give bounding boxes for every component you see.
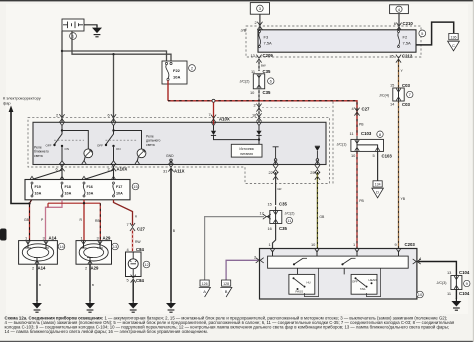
label 15 bbox=[36, 125, 43, 132]
label 7 bbox=[407, 91, 413, 97]
svg-text:1: 1 bbox=[353, 242, 355, 247]
svg-text:13: 13 bbox=[113, 244, 118, 249]
label 15 fuse box bbox=[132, 183, 139, 190]
svg-text:HEAD: HEAD bbox=[369, 278, 377, 282]
wire F19 to left headlight (red-black) bbox=[30, 200, 32, 241]
label 10 bbox=[417, 291, 424, 298]
svg-text:2: 2 bbox=[32, 265, 34, 270]
low-beam relay coil bbox=[54, 131, 93, 165]
svg-text:F2: F2 bbox=[403, 35, 408, 40]
wire branch to right headlight pin3 (red-black) bbox=[48, 203, 100, 240]
wire box3 down bbox=[259, 14, 261, 30]
pin 13 connector C209 bbox=[256, 55, 261, 63]
svg-text:11: 11 bbox=[350, 131, 354, 136]
caption text bbox=[5, 316, 455, 335]
svg-text:D: D bbox=[376, 190, 379, 195]
pin 9 bbox=[396, 249, 400, 252]
svg-text:YB: YB bbox=[401, 197, 406, 201]
wire bus tap to control unit A10X bbox=[213, 102, 215, 124]
low-beam relay bbox=[46, 122, 70, 164]
wire J/C(1) pin5 to off-page D bbox=[377, 151, 379, 180]
svg-text:134: 134 bbox=[375, 183, 381, 187]
wire headlight14 ground bbox=[36, 264, 38, 301]
fuse F18 bbox=[60, 176, 72, 197]
wire relay1 to fuses F19 F18 bbox=[32, 166, 62, 180]
strip contact arm left bbox=[294, 258, 303, 264]
svg-text:7,5A: 7,5A bbox=[264, 41, 273, 46]
ground (battery) bbox=[92, 25, 102, 37]
control unit output terminal 22 bbox=[273, 147, 279, 165]
node connector on bus bbox=[212, 99, 215, 102]
svg-text:6: 6 bbox=[394, 21, 396, 26]
wire indicator ground bbox=[132, 281, 134, 302]
svg-text:RW: RW bbox=[135, 240, 141, 244]
pin 2 left side bbox=[256, 258, 264, 263]
wire C209 down (black-white) bbox=[258, 60, 260, 71]
svg-text:A14: A14 bbox=[49, 236, 57, 241]
svg-text:16: 16 bbox=[268, 226, 272, 231]
ignition switch box 4 bbox=[390, 5, 409, 14]
off-page arrow A bbox=[199, 280, 211, 297]
svg-text:GB: GB bbox=[24, 218, 30, 222]
svg-text:ON: ON bbox=[65, 147, 70, 151]
svg-text:3: 3 bbox=[97, 235, 99, 240]
pin 25 connector C212 bbox=[396, 55, 401, 63]
svg-text:OFF: OFF bbox=[352, 280, 358, 284]
svg-text:A14: A14 bbox=[38, 266, 46, 271]
wire F22 output red bbox=[167, 81, 169, 101]
svg-text:C35: C35 bbox=[263, 90, 271, 95]
svg-text:126: 126 bbox=[202, 282, 208, 286]
svg-text:1: 1 bbox=[25, 235, 27, 240]
svg-text:6: 6 bbox=[56, 167, 58, 172]
off-page arrow D bbox=[372, 181, 384, 198]
svg-text:Источник: Источник bbox=[239, 147, 254, 151]
svg-text:5: 5 bbox=[373, 153, 375, 158]
svg-text:F18: F18 bbox=[65, 185, 71, 189]
pin 2 C209 top bbox=[257, 22, 262, 30]
svg-text:F17: F17 bbox=[116, 185, 122, 189]
label 13 bbox=[112, 243, 119, 250]
svg-text:PB: PB bbox=[359, 123, 364, 127]
svg-text:C103: C103 bbox=[361, 131, 372, 136]
svg-text:1: 1 bbox=[81, 235, 83, 240]
svg-text:J/C(2): J/C(2) bbox=[285, 212, 295, 216]
svg-text:10A: 10A bbox=[87, 192, 94, 196]
fuse F3 bbox=[259, 31, 273, 48]
svg-text:C104: C104 bbox=[459, 270, 470, 275]
power source box bbox=[231, 144, 262, 157]
junction block J/B dashed bbox=[246, 26, 421, 57]
svg-text:14: 14 bbox=[59, 244, 64, 249]
svg-text:B: B bbox=[225, 289, 228, 294]
wire branch to high-beam relay bbox=[113, 54, 115, 124]
pin 2 (relay block entry) bbox=[59, 114, 64, 122]
pin 31 A11X bbox=[168, 164, 173, 172]
wire J/C(1) to light switch (red-black) bbox=[356, 151, 358, 248]
svg-text:10A: 10A bbox=[35, 192, 42, 196]
svg-text:22: 22 bbox=[269, 170, 273, 175]
wire control unit 22 to C35 bbox=[275, 172, 277, 205]
svg-text:10A: 10A bbox=[173, 75, 180, 80]
wire switch pin4 to C104 (black) bbox=[418, 262, 456, 276]
svg-text:10A: 10A bbox=[116, 192, 123, 196]
ignition switch box 3 bbox=[250, 3, 269, 15]
svg-text:A: A bbox=[203, 289, 206, 294]
wire battery left terminal down to relay feed bbox=[61, 31, 63, 124]
svg-text:C03: C03 bbox=[402, 102, 410, 107]
svg-text:B: B bbox=[39, 283, 41, 287]
label 2 (fuse box) bbox=[189, 65, 196, 72]
left headlight 14 bbox=[19, 241, 58, 265]
svg-text:OFF: OFF bbox=[97, 144, 103, 148]
svg-text:B: B bbox=[92, 283, 94, 287]
pin 25 bbox=[315, 165, 320, 173]
svg-text:16: 16 bbox=[252, 112, 256, 117]
svg-text:TAIL: TAIL bbox=[360, 287, 366, 291]
wire C27 to indicator (red-white) bbox=[132, 229, 134, 252]
battery 1 bbox=[62, 19, 84, 31]
svg-text:14 — лампа ближнего/дальнего с: 14 — лампа ближнего/дальнего света левой… bbox=[5, 329, 208, 334]
wire F17 to C27 (dark red) bbox=[114, 200, 133, 225]
svg-text:11: 11 bbox=[251, 69, 255, 74]
pin 1b bbox=[355, 249, 359, 252]
svg-text:RB: RB bbox=[95, 219, 100, 223]
ground wire A11X bbox=[170, 169, 172, 301]
pin 6 connector C210 bbox=[396, 23, 401, 31]
svg-text:J/C(4): J/C(4) bbox=[379, 93, 389, 97]
wire F18 to left headlight pin3 (pink) bbox=[46, 200, 63, 241]
svg-text:13: 13 bbox=[447, 270, 451, 275]
joint connector J/C(2) 11 bbox=[263, 207, 282, 226]
label 12 bbox=[143, 261, 150, 268]
fuse panel 5 bbox=[258, 30, 416, 52]
svg-text:J/C(3): J/C(3) bbox=[437, 281, 447, 285]
pin 6 (relay block entry) bbox=[111, 114, 116, 122]
high-beam relay bbox=[97, 122, 121, 164]
svg-text:7: 7 bbox=[209, 112, 211, 117]
scan blob artifact left edge bbox=[0, 229, 7, 241]
svg-text:A10X: A10X bbox=[219, 117, 230, 122]
svg-text:2: 2 bbox=[85, 265, 87, 270]
label 6 bbox=[268, 78, 274, 84]
svg-text:25: 25 bbox=[310, 170, 314, 175]
svg-text:7,5A: 7,5A bbox=[403, 41, 412, 46]
svg-text:10A: 10A bbox=[65, 192, 72, 196]
svg-text:C27: C27 bbox=[137, 227, 145, 232]
right headlight 13 bbox=[76, 241, 112, 265]
svg-text:C209: C209 bbox=[263, 53, 274, 58]
svg-text:11: 11 bbox=[447, 291, 451, 296]
svg-text:PASS: PASS bbox=[296, 290, 304, 294]
relay and control unit gray box bbox=[33, 122, 326, 164]
svg-text:31: 31 bbox=[163, 168, 167, 173]
svg-text:R: R bbox=[135, 215, 137, 219]
svg-text:7: 7 bbox=[127, 222, 129, 227]
off-page arrow C bbox=[448, 33, 460, 50]
pin 22 bbox=[273, 165, 278, 173]
label 5 bbox=[419, 30, 426, 37]
joint connector J/C(4) 7 bbox=[393, 88, 404, 101]
svg-text:17: 17 bbox=[260, 210, 264, 215]
wire C35 to switch pin1 bbox=[273, 225, 276, 249]
label 9 bbox=[464, 280, 470, 286]
label 8 bbox=[377, 131, 383, 137]
svg-text:C212: C212 bbox=[402, 54, 413, 59]
svg-text:128: 128 bbox=[223, 282, 229, 286]
wire switch pin2 to off-page B (violet) bbox=[226, 260, 258, 280]
GND pin relay block bbox=[166, 154, 174, 164]
svg-text:5: 5 bbox=[127, 278, 129, 283]
svg-text:12: 12 bbox=[144, 262, 149, 267]
svg-text:света: света bbox=[34, 154, 43, 158]
ground (C104) bbox=[451, 298, 461, 310]
wire C35 down to control unit (black-white) bbox=[258, 89, 260, 123]
strip contact arm right bbox=[343, 258, 352, 264]
off-page arrow B bbox=[220, 280, 232, 297]
joint connector J/C(2) 6 bbox=[253, 74, 264, 89]
svg-text:C103: C103 bbox=[382, 153, 393, 158]
svg-text:C27: C27 bbox=[362, 106, 370, 111]
wire panel5 to off-page arrow C bbox=[416, 22, 454, 45]
high-beam indicator lamp 12 bbox=[126, 252, 142, 277]
svg-text:10: 10 bbox=[418, 292, 423, 297]
label 11 bbox=[286, 217, 292, 223]
svg-text:136: 136 bbox=[451, 35, 457, 39]
ground (indicator) bbox=[128, 300, 138, 312]
wire bus battery to fuse F22 bbox=[62, 51, 167, 62]
fuse F17 bbox=[111, 176, 123, 197]
svg-text:C210: C210 bbox=[403, 21, 414, 26]
svg-text:C35: C35 bbox=[279, 202, 287, 207]
svg-text:A29: A29 bbox=[91, 266, 99, 271]
svg-text:GR: GR bbox=[277, 187, 281, 191]
svg-text:2: 2 bbox=[254, 255, 256, 260]
svg-text:C35: C35 bbox=[279, 226, 287, 231]
inner contact strip bbox=[268, 256, 409, 268]
high-beam relay coil bbox=[106, 131, 146, 165]
svg-text:C: C bbox=[452, 43, 455, 48]
lighting switch sub-box bbox=[351, 268, 380, 296]
svg-text:15: 15 bbox=[268, 201, 272, 206]
wire C212 tan column bbox=[398, 60, 400, 88]
svg-text:13: 13 bbox=[251, 53, 255, 58]
svg-text:света: света bbox=[146, 143, 155, 147]
svg-text:2: 2 bbox=[255, 20, 257, 25]
ground (right headlight) bbox=[85, 300, 95, 312]
passing switch sub-box bbox=[289, 268, 344, 296]
svg-text:OFF: OFF bbox=[46, 144, 52, 148]
svg-text:15: 15 bbox=[390, 83, 394, 88]
svg-text:PB: PB bbox=[359, 199, 364, 203]
pin 4 right side bbox=[413, 259, 421, 264]
ground (left headlight) bbox=[32, 300, 42, 312]
control unit 16 internals: A10X diode input bbox=[211, 122, 259, 139]
svg-text:2: 2 bbox=[56, 113, 58, 118]
pin 10 bbox=[315, 249, 319, 252]
fuse box F19-F17 bbox=[25, 180, 130, 200]
wire second battery feed to F22 bbox=[72, 31, 171, 62]
fuse F16 bbox=[82, 176, 94, 197]
wire C03 to light switch tan bbox=[398, 101, 400, 249]
wire box4 down bbox=[398, 14, 400, 30]
wire battery to ground bbox=[84, 25, 97, 27]
svg-text:C104: C104 bbox=[459, 291, 470, 296]
fuse F19 bbox=[30, 176, 42, 197]
svg-text:15: 15 bbox=[133, 184, 138, 189]
wire C27 feed pin 4 bbox=[354, 108, 359, 116]
svg-text:6: 6 bbox=[108, 113, 110, 118]
svg-text:BW: BW bbox=[261, 64, 266, 68]
svg-text:C84: C84 bbox=[136, 278, 144, 283]
control unit output diode 25 bbox=[315, 146, 320, 164]
relay block 15 dashed outline bbox=[28, 117, 330, 183]
svg-text:фар: фар bbox=[3, 100, 11, 105]
dashed edge double line right bbox=[332, 102, 334, 184]
pin 1 bbox=[270, 249, 274, 252]
pin 7 connector C27 bbox=[130, 223, 135, 231]
control unit ignition diode input bbox=[252, 102, 330, 144]
wire control unit 25 to switch (olive) bbox=[316, 172, 318, 249]
svg-text:A29: A29 bbox=[103, 236, 111, 241]
svg-text:F22: F22 bbox=[173, 68, 181, 73]
svg-text:F16: F16 bbox=[87, 185, 93, 189]
red feed bus F22 to C27 bbox=[168, 101, 357, 136]
pin 7 A10X bbox=[211, 115, 216, 123]
svg-text:A11X: A11X bbox=[174, 169, 185, 174]
svg-text:C03: C03 bbox=[402, 83, 410, 88]
wire relay2 to fuses F16 F17 bbox=[84, 166, 114, 180]
svg-text:C84: C84 bbox=[136, 247, 144, 252]
svg-text:25: 25 bbox=[390, 53, 394, 58]
svg-text:HU: HU bbox=[307, 280, 311, 284]
light switch box 10 bbox=[260, 249, 417, 300]
svg-text:GND: GND bbox=[166, 154, 174, 158]
svg-text:J/B: J/B bbox=[241, 28, 247, 33]
svg-text:F19: F19 bbox=[35, 185, 41, 189]
svg-text:9: 9 bbox=[395, 242, 397, 247]
wire C104 to ground bbox=[455, 290, 457, 300]
svg-text:C203: C203 bbox=[405, 242, 416, 247]
wire pin17 to off-page A (gray) bbox=[205, 217, 264, 280]
svg-text:F3: F3 bbox=[264, 35, 269, 40]
wire to headlight leveling (black) bbox=[11, 111, 30, 204]
svg-text:ON: ON bbox=[116, 147, 121, 151]
joint connector J/C(1) 8 bbox=[351, 136, 384, 151]
label 14 bbox=[58, 243, 65, 250]
svg-text:A10X: A10X bbox=[117, 167, 128, 172]
wires pins to strip bbox=[273, 251, 399, 257]
svg-text:GB: GB bbox=[319, 215, 325, 219]
wire F16 to right headlight pin1 (red) bbox=[83, 200, 85, 241]
wire headlight13 ground bbox=[89, 264, 91, 301]
joint connector J/C(3) 9 bbox=[451, 276, 462, 290]
svg-text:J/C(2): J/C(2) bbox=[240, 80, 250, 84]
label 1 (battery) bbox=[70, 33, 77, 40]
svg-text:1: 1 bbox=[269, 242, 271, 247]
fuse F22 box 2 bbox=[162, 61, 187, 84]
svg-text:3: 3 bbox=[43, 235, 45, 240]
fuse F2 bbox=[398, 31, 412, 48]
svg-text:J/C(1): J/C(1) bbox=[337, 143, 347, 147]
svg-text:2: 2 bbox=[254, 102, 256, 107]
ground (relay block) bbox=[166, 300, 176, 312]
svg-text:питания: питания bbox=[240, 152, 253, 156]
